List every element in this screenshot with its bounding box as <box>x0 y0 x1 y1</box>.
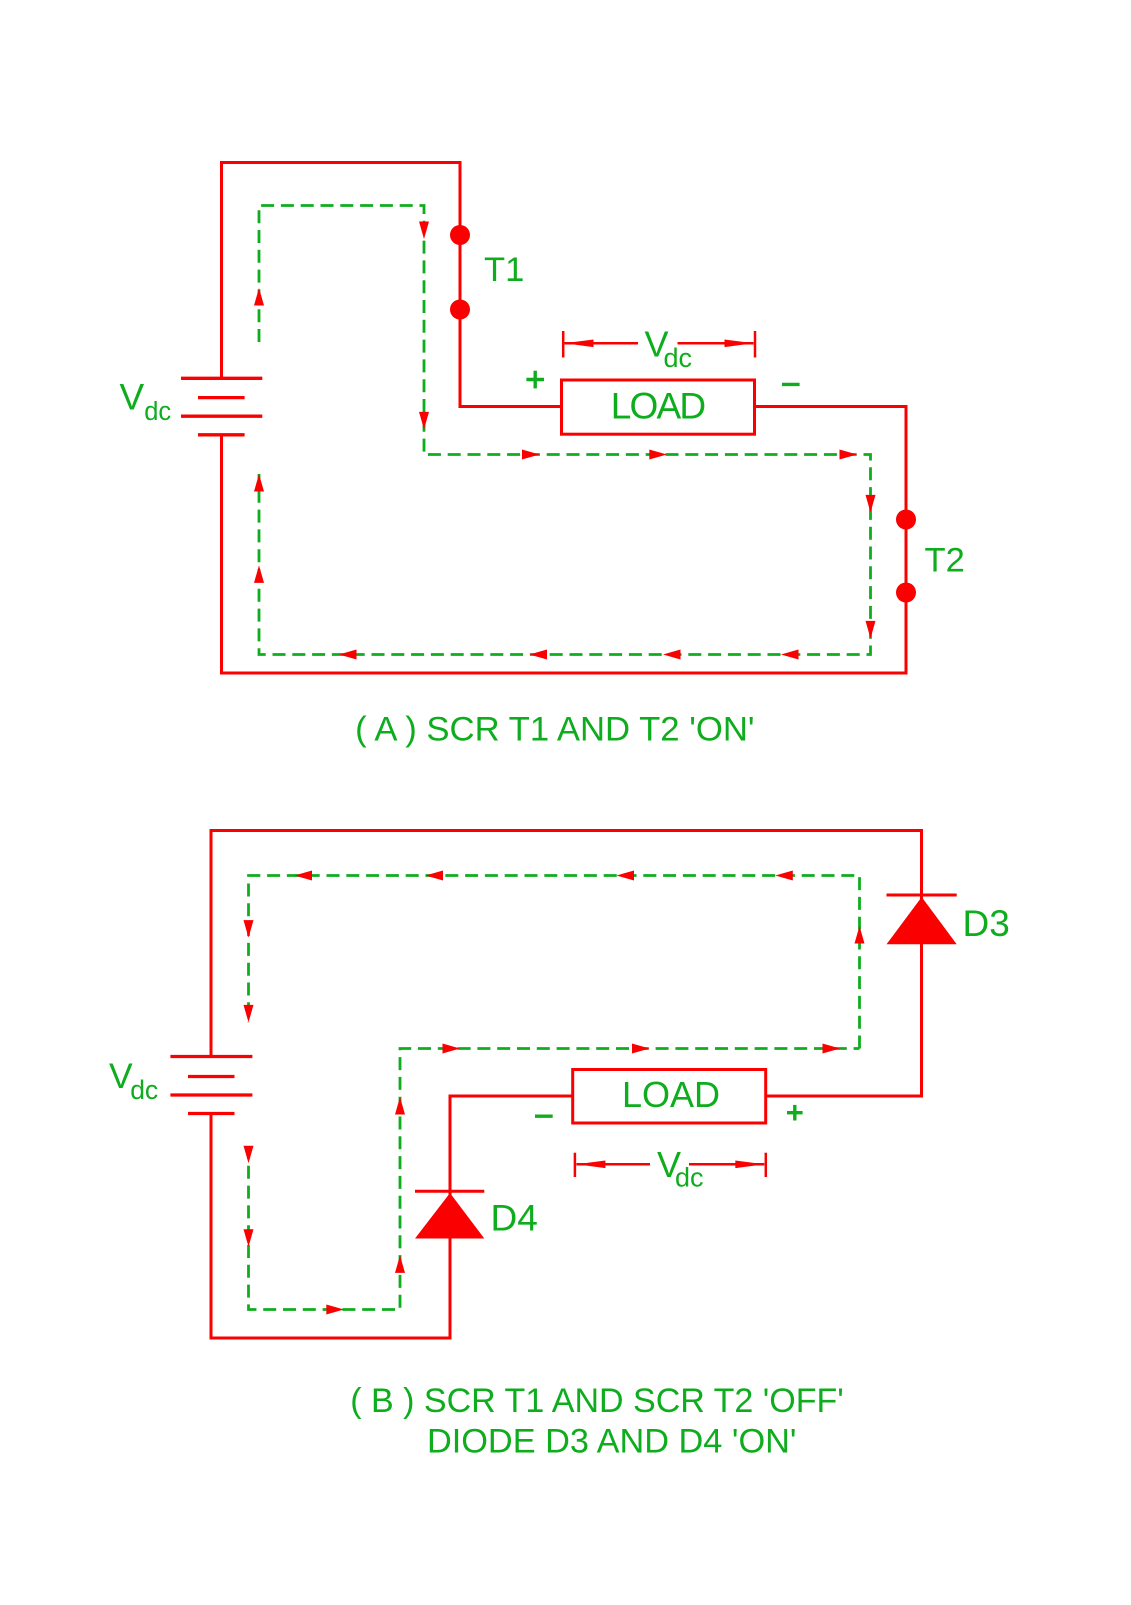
svg-text:( A ) SCR T1 AND T2 'ON': ( A ) SCR T1 AND T2 'ON' <box>355 711 754 749</box>
svg-text:D4: D4 <box>491 1198 538 1239</box>
svg-text:LOAD: LOAD <box>611 386 705 427</box>
svg-text:LOAD: LOAD <box>622 1074 720 1115</box>
svg-text:T1: T1 <box>484 251 524 289</box>
svg-text:( B ) SCR T1 AND SCR T2 'OFF': ( B ) SCR T1 AND SCR T2 'OFF' <box>350 1382 843 1420</box>
svg-text:T2: T2 <box>925 542 965 580</box>
svg-text:D3: D3 <box>963 903 1010 944</box>
svg-text:DIODE D3 AND D4 'ON': DIODE D3 AND D4 'ON' <box>427 1423 796 1461</box>
